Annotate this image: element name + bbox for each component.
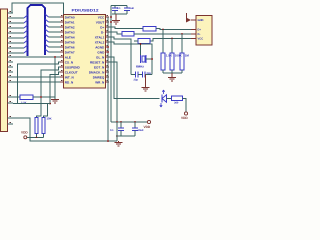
P1 pin stub row y=77: [8, 76, 14, 78]
svg-text:INT_N: INT_N: [65, 75, 75, 79]
bus entry left 6: [24, 45, 28, 48]
U1 pin number right row 5: [107, 35, 109, 37]
resistor R2 22 (D+ series): [143, 27, 156, 32]
U1 pin number right row 8: [107, 50, 109, 52]
svg-text:D+: D+: [198, 29, 202, 32]
wire: GL_N to LED: [109, 57, 160, 99]
bus entry right 2: [45, 24, 49, 27]
P1 pin number 3: [10, 20, 12, 22]
junction ALE/feeder: [54, 56, 56, 58]
svg-text:VDD: VDD: [144, 125, 151, 129]
ground arrow on J1 GND: [186, 18, 191, 23]
wire: bus to U1 DATA3: [49, 31, 61, 33]
bus entry right 1: [45, 19, 49, 22]
svg-text:ALE: ALE: [65, 55, 71, 59]
wire: crystal right lead: [146, 58, 152, 60]
svg-text:VDD: VDD: [181, 116, 188, 120]
resistor R8 2.2K: [20, 95, 33, 100]
P1 pin stub row y=33: [8, 32, 14, 34]
connector J1 USB socket: [196, 16, 212, 46]
P1 pin number 18: [10, 115, 12, 117]
U1 right pin DMREQ: [106, 76, 110, 78]
svg-text:VCC: VCC: [198, 38, 204, 41]
P1 pin stub row y=82: [8, 81, 14, 83]
resistor R6 1M (vertical): [180, 53, 184, 70]
P1 pin stub row y=67: [8, 66, 14, 68]
U1 left pin DATA4: [60, 36, 64, 38]
capacitor C6 22p (right load cap): [142, 72, 144, 78]
P1 pin stub row y=13: [8, 12, 14, 14]
bus entry right 0: [45, 14, 49, 17]
J1 pin D-: [191, 33, 196, 35]
P1 pin number 2: [10, 15, 12, 17]
wire: P1 to U1 (row 57): [13, 56, 60, 58]
wire: P1 to bus entry (row 38): [13, 37, 24, 39]
P1 pin number 13: [10, 69, 12, 71]
bus entry left 3: [24, 30, 28, 33]
wire: bus to U1 DATA4: [49, 36, 61, 38]
U1 right pin VCC: [106, 16, 110, 18]
svg-text:DATA7: DATA7: [65, 50, 75, 54]
svg-text:DATA5: DATA5: [65, 40, 75, 44]
wire: VCC net vertical V2: [110, 6, 112, 123]
P1 pin stub row y=72: [8, 71, 14, 73]
wire: P1 to bus entry (row 53): [13, 52, 24, 54]
P1 pin stub row y=48: [8, 47, 14, 49]
wire: P1 to bus entry (row 18): [13, 17, 24, 19]
wire: C3 C4 bottoms: [117, 135, 135, 137]
P1 pin number 6: [10, 35, 12, 37]
ground for load caps: [145, 75, 147, 88]
resistor R1 22 (D- series): [122, 32, 134, 37]
U1 left pin CS_N: [60, 61, 64, 63]
resistor R5 100K (vertical): [170, 53, 174, 70]
U1 pin number right row 11: [107, 65, 109, 67]
svg-text:WR_N: WR_N: [95, 80, 105, 84]
svg-text:DMREQ: DMREQ: [93, 75, 105, 79]
U1 pin number left row 5: [61, 35, 63, 37]
junction bottoms: [36, 136, 38, 138]
wire: XTAL1 from U1: [109, 37, 131, 75]
power port VDD (LED): [184, 112, 187, 115]
U1 left pin DATA0: [60, 16, 64, 18]
wire: R8 to feeder: [33, 96, 55, 98]
U1 pin number left row 7: [61, 45, 63, 47]
svg-text:VDD: VDD: [21, 131, 28, 135]
wire: x117 drop continues to GND rail: [116, 122, 118, 141]
J1 pin VCC: [191, 38, 196, 40]
capacitor C4 10uF: [134, 122, 136, 128]
svg-text:VCC: VCC: [98, 15, 105, 19]
P1 pin stub row y=18: [8, 17, 14, 19]
svg-text:RD_N: RD_N: [65, 80, 74, 84]
wire: P1 row103 to R10: [13, 103, 50, 105]
svg-text:DATA1: DATA1: [65, 20, 75, 24]
wire: row103 down to R10 top: [44, 104, 48, 118]
capacitor C3 0.1uF: [120, 122, 122, 128]
U1 pin number left row 3: [61, 25, 63, 27]
wire: ALE row ground feeder: [54, 57, 56, 99]
wire: LED to R7: [167, 98, 172, 100]
LED arrow down: [160, 103, 162, 107]
U1 right pin D-: [106, 31, 110, 33]
svg-text:GL_N: GL_N: [96, 55, 105, 59]
svg-text:22p: 22p: [147, 72, 152, 75]
svg-text:GND: GND: [198, 19, 204, 22]
svg-text:D+: D+: [100, 25, 104, 29]
P1 pin stub row y=28: [8, 27, 14, 29]
svg-text:1.5K: 1.5K: [166, 54, 173, 58]
junction rail x135: [134, 121, 136, 123]
P1 pin number 17: [10, 100, 12, 102]
bus: data bus D0-D7 (thick navy U-shape): [28, 5, 46, 56]
P1 pin number 10: [10, 54, 12, 56]
P1 pin number 14: [10, 74, 12, 76]
P1 pin stub row y=124: [8, 123, 14, 125]
P1 pin number 19: [10, 121, 12, 123]
wire: GND rail from P1 to x117: [13, 118, 117, 141]
wire: L-route to U1 CS_N (row 62): [18, 62, 61, 104]
wire: R7 to VDD port: [183, 99, 187, 113]
U1 pin number left row 11: [61, 65, 63, 67]
connector P1 (left pin header): [1, 9, 8, 132]
P1 pin stub row y=53: [8, 52, 14, 54]
LED D1: [161, 95, 163, 103]
junction D+ pull: [162, 29, 164, 31]
IC U1 PDIUSBD12: [64, 15, 106, 89]
wire: R1 to USB D-: [134, 33, 191, 35]
svg-text:DATA0: DATA0: [65, 15, 75, 19]
svg-text:22p: 22p: [134, 79, 139, 82]
P1 pin number 15: [10, 79, 12, 81]
junction crystal right: [151, 58, 153, 60]
U1 left pin ALE: [60, 56, 64, 58]
P1 pin stub row y=62: [8, 61, 14, 63]
junction on V2 at VOUT: [110, 21, 112, 23]
wire: VCC row to USB: [150, 39, 191, 42]
wire: R3 left lead: [134, 40, 138, 42]
resistor R9 10K (vertical): [35, 118, 38, 134]
P1 pin stub row y=57: [8, 56, 14, 58]
bus entry left 4: [24, 35, 28, 38]
U1 right pin WR_N: [106, 81, 110, 83]
U1 pin number right row 7: [107, 45, 109, 47]
P1 pin stub row y=38: [8, 37, 14, 39]
svg-text:DMACK_N: DMACK_N: [89, 70, 105, 74]
svg-text:D-: D-: [198, 33, 201, 36]
wire: pull resistor bottoms join: [162, 70, 164, 73]
junction D- pull: [181, 33, 183, 35]
U1 left pin SUSPEND: [60, 66, 64, 68]
bus entry left 7: [24, 50, 28, 53]
wire: bus to U1 DATA5: [49, 41, 61, 43]
svg-text:100K: 100K: [175, 54, 183, 58]
U1 pin number right row 10: [107, 60, 109, 62]
U1 left pin RD_N: [60, 81, 64, 83]
P1 pin number 12: [10, 64, 12, 66]
svg-text:6MHz: 6MHz: [136, 64, 144, 68]
ground at end of GND rail: [118, 141, 120, 142]
wire: cap bottoms join: [112, 13, 127, 15]
wire: L-route to U1 CLKOUT (row 72): [50, 72, 60, 104]
wire: P1 to bus entry (row 28): [13, 27, 24, 29]
LED arrow up: [162, 90, 164, 94]
svg-text:1uF: 1uF: [130, 7, 135, 10]
ground for C1 C2: [115, 14, 117, 20]
wire: D+ from U1: [109, 27, 143, 29]
bus entry left 1: [24, 20, 28, 23]
wire: bus to U1 DATA1: [49, 21, 61, 23]
U1 pin number left row 9: [61, 55, 63, 57]
wire: P1 to bus entry (row 33): [13, 32, 24, 34]
U1 left pin DATA3: [60, 31, 64, 33]
svg-text:10K: 10K: [47, 117, 52, 121]
svg-text:SUSPEND: SUSPEND: [65, 65, 81, 69]
U1 right pin XTAL1: [106, 36, 110, 38]
resistor R10 10K (vertical): [42, 118, 45, 134]
svg-text:10uF: 10uF: [138, 129, 144, 132]
U1 right pin RESET_N: [106, 61, 110, 63]
svg-text:RESET_N: RESET_N: [90, 60, 105, 64]
svg-text:0.1: 0.1: [117, 7, 121, 10]
capacitor C5 22p (left load cap): [131, 74, 136, 76]
U1 pin number right row 14: [107, 80, 109, 82]
P1 pin number 9: [10, 50, 12, 52]
wire: bus to U1 DATA2: [49, 26, 61, 28]
power port VDD (rail): [147, 120, 150, 123]
U1 pin number left row 14: [61, 80, 63, 82]
U1 pin number left row 4: [61, 30, 63, 32]
wire: R4 top lead: [162, 30, 164, 54]
svg-text:EOT_N: EOT_N: [94, 65, 105, 69]
U1 left pin INT_N: [60, 76, 64, 78]
svg-text:DATA2: DATA2: [65, 25, 75, 29]
svg-text:1M: 1M: [185, 54, 190, 58]
P1 pin number 11: [10, 59, 12, 61]
junction on V2 at VCC pin: [110, 16, 112, 18]
svg-text:360: 360: [174, 101, 179, 104]
U1 pin number right row 12: [107, 70, 109, 72]
svg-text:DATA3: DATA3: [65, 30, 75, 34]
junction rail x117: [116, 121, 118, 123]
junction on V1 at GND: [107, 51, 109, 53]
resistor R4 1.5K (vertical): [161, 53, 165, 70]
U1 pin number left row 2: [61, 20, 63, 22]
bus entry left 0: [24, 15, 28, 18]
U1 left pin DATA1: [60, 21, 64, 23]
svg-text:PDIUSBD12: PDIUSBD12: [72, 9, 99, 13]
svg-text:D-: D-: [101, 30, 104, 34]
svg-text:DATA4: DATA4: [65, 35, 75, 39]
junction on V1 at AGND: [107, 46, 109, 48]
U1 pin number right row 3: [107, 25, 109, 27]
junction rail x121: [120, 121, 122, 123]
U1 pin number right row 2: [107, 20, 109, 22]
bus entry right 5: [45, 39, 49, 42]
bus entry right 7: [45, 49, 49, 52]
U1 left pin DATA5: [60, 41, 64, 43]
junction row97 x41: [40, 96, 42, 98]
U1 pin number right row 4: [107, 30, 109, 32]
svg-text:AGND: AGND: [95, 45, 105, 49]
wire: crystal top lead: [140, 44, 142, 55]
wire: bus to U1 DATA6: [49, 46, 61, 48]
wire: P1 to U1 (row 82): [13, 81, 60, 83]
U1 pin number left row 8: [61, 50, 63, 52]
power port VDD (left): [24, 136, 27, 139]
P1 pin number 5: [10, 30, 12, 32]
U1 right pin EOT_N: [106, 66, 110, 68]
resistor R7 360: [172, 96, 183, 101]
J1 pin D+: [191, 29, 196, 31]
wire: R2 to USB D+: [156, 29, 191, 30]
wire: L-route from R9 to U1 SUSPEND (row 67): [37, 67, 61, 118]
P1 pin stub row y=97: [8, 96, 14, 98]
wire: bus to U1 DATA7: [49, 51, 61, 53]
bus entry right 6: [45, 44, 49, 47]
U1 left pin DATA7: [60, 51, 64, 53]
ground for pull resistors: [171, 73, 173, 77]
ground at feeder bottom: [51, 99, 59, 101]
P1 pin stub row y=103: [8, 102, 14, 104]
U1 right pin DMACK_N: [106, 71, 110, 73]
svg-text:CS_N: CS_N: [65, 60, 74, 64]
U1 right pin GND: [106, 51, 110, 53]
wire: GND net vertical V1: [107, 17, 109, 141]
U1 pin number left row 6: [61, 40, 63, 42]
U1 pin number left row 13: [61, 75, 63, 77]
bus entry left 5: [24, 40, 28, 43]
wire: XTAL2 from U1: [109, 42, 152, 75]
svg-text:DATA6: DATA6: [65, 45, 75, 49]
P1 pin stub row y=43: [8, 42, 14, 44]
junction cap bottoms: [116, 135, 118, 137]
P1 pin number 8: [10, 45, 12, 47]
resistor R3 1.5K: [138, 39, 150, 44]
svg-text:0.1: 0.1: [110, 129, 114, 132]
wire: P1 to bus entry (row 48): [13, 47, 24, 49]
wire: load cap centre: [138, 74, 143, 76]
capacitor C1 0.1uF (top): [114, 6, 116, 9]
wire: R6 top lead: [181, 34, 183, 53]
crystal Y1 6MHz: [140, 55, 142, 63]
P1 pin stub row y=23: [8, 22, 14, 24]
junction row103 x50: [49, 103, 51, 105]
wire: P1 to U1 (row 77): [13, 76, 60, 78]
U1 right pin VOUT: [106, 21, 110, 23]
svg-text:GND: GND: [97, 50, 105, 54]
bus entry left 2: [24, 25, 28, 28]
junction crystal top: [140, 43, 142, 45]
U1 pin number right row 1: [107, 15, 109, 17]
wire: U1 row62 to VDD rail: [109, 62, 117, 122]
P1 pin stub row y=118: [8, 117, 14, 119]
U1 pin number right row 9: [107, 55, 109, 57]
wire: VDD rail: [111, 121, 148, 123]
U1 right pin D+: [106, 26, 110, 28]
wire: bus to U1 DATA0: [49, 16, 61, 18]
wire: VOUT rail to caps: [111, 5, 127, 7]
J1 pin GND: [191, 19, 196, 21]
svg-text:VOUT: VOUT: [96, 20, 105, 24]
wire: R5 top lead: [171, 39, 173, 54]
bus entry right 3: [45, 29, 49, 32]
wire: P1 to bus entry (row 43): [13, 42, 24, 44]
P1 pin number 1: [10, 10, 12, 12]
wire: R9 R10 bottoms to VDD: [27, 134, 37, 138]
U1 right pin XTAL2: [106, 41, 110, 43]
P1 pin number 16: [10, 94, 12, 96]
wire: P1 row97 to R8: [13, 96, 20, 98]
U1 right pin GL_N: [106, 56, 110, 58]
wire: P1 pin1 up and over to U1 top-left: [12, 3, 64, 14]
wire: D- from U1: [109, 32, 122, 34]
junction VCC pull: [171, 38, 173, 40]
P1 pin number 4: [10, 25, 12, 27]
svg-text:CLKOUT: CLKOUT: [65, 70, 78, 74]
U1 left pin DATA2: [60, 26, 64, 28]
U1 left pin DATA6: [60, 46, 64, 48]
U1 pin number left row 1: [61, 15, 63, 17]
capacitor C2 1uF (top): [126, 6, 128, 9]
wire: P1 to bus entry (row 23): [13, 22, 24, 24]
U1 pin number left row 10: [61, 60, 63, 62]
P1 pin number 7: [10, 40, 12, 42]
bus entry right 4: [45, 34, 49, 37]
svg-text:XTAL1: XTAL1: [95, 35, 105, 39]
junction V1 on GND rail: [107, 140, 109, 142]
U1 pin number right row 13: [107, 75, 109, 77]
svg-text:XTAL2: XTAL2: [95, 40, 105, 44]
U1 right pin AGND: [106, 46, 110, 48]
U1 left pin CLKOUT: [60, 71, 64, 73]
U1 pin number right row 6: [107, 40, 109, 42]
U1 pin number left row 12: [61, 70, 63, 72]
